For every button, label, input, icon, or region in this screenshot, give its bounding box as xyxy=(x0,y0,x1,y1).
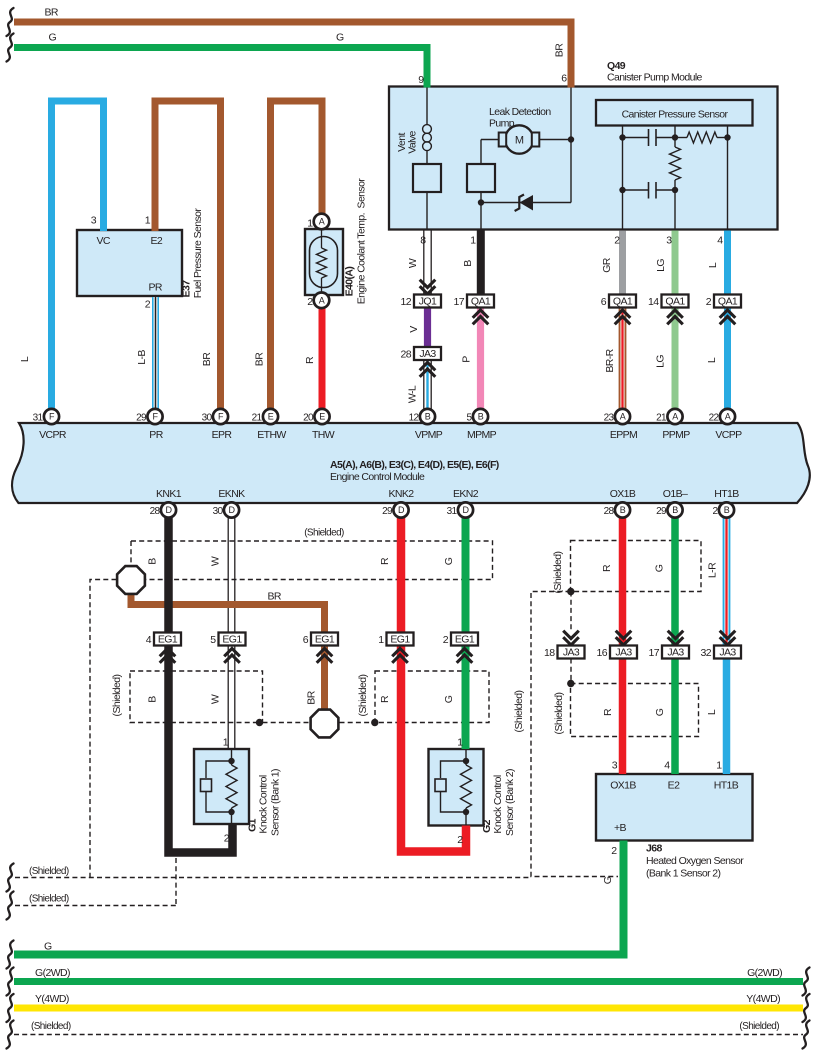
svg-text:(Shielded): (Shielded) xyxy=(739,1021,779,1032)
svg-text:32: 32 xyxy=(701,647,712,659)
svg-text:22: 22 xyxy=(709,413,720,424)
svg-text:BR: BR xyxy=(554,43,566,57)
svg-text:OX1B: OX1B xyxy=(610,780,636,792)
svg-text:Sensor (Bank 2): Sensor (Bank 2) xyxy=(504,769,516,836)
svg-text:12: 12 xyxy=(409,413,420,424)
svg-text:2: 2 xyxy=(706,296,712,308)
svg-text:ETHW: ETHW xyxy=(257,429,286,441)
svg-text:Engine Control Module: Engine Control Module xyxy=(330,471,425,483)
svg-text:28: 28 xyxy=(604,506,615,517)
svg-text:B: B xyxy=(724,505,730,515)
svg-text:W: W xyxy=(407,258,419,268)
svg-text:R: R xyxy=(602,708,614,716)
svg-text:EG1: EG1 xyxy=(222,634,242,646)
svg-text:L-R: L-R xyxy=(707,562,719,578)
svg-text:6: 6 xyxy=(561,73,567,85)
svg-text:4: 4 xyxy=(717,235,723,247)
svg-text:B: B xyxy=(478,412,484,422)
svg-text:L: L xyxy=(707,262,719,268)
svg-text:P: P xyxy=(461,356,473,363)
svg-text:A: A xyxy=(620,412,626,422)
svg-text:G: G xyxy=(44,941,52,953)
svg-text:4: 4 xyxy=(664,760,670,772)
svg-text:20: 20 xyxy=(303,413,314,424)
svg-text:12: 12 xyxy=(401,296,412,308)
svg-text:17: 17 xyxy=(454,296,465,308)
svg-text:28: 28 xyxy=(401,349,412,361)
svg-text:PPMP: PPMP xyxy=(662,429,690,441)
svg-text:Knock Control: Knock Control xyxy=(492,775,504,833)
svg-text:6: 6 xyxy=(601,296,607,308)
svg-text:E37: E37 xyxy=(181,280,193,298)
svg-text:R: R xyxy=(379,557,391,565)
svg-text:E40(A): E40(A) xyxy=(344,267,356,297)
svg-text:18: 18 xyxy=(544,647,555,659)
svg-text:THW: THW xyxy=(312,429,335,441)
svg-text:BR: BR xyxy=(306,690,318,704)
svg-text:BR: BR xyxy=(254,352,266,366)
svg-text:EG1: EG1 xyxy=(455,634,475,646)
svg-text:(Shielded): (Shielded) xyxy=(357,674,369,716)
svg-text:Engine Coolant Temp. Sensor: Engine Coolant Temp. Sensor xyxy=(356,178,368,305)
svg-text:B: B xyxy=(147,696,159,703)
svg-text:2: 2 xyxy=(443,634,449,646)
svg-text:Canister Pump Module: Canister Pump Module xyxy=(607,72,703,84)
svg-text:EKN2: EKN2 xyxy=(453,488,479,500)
svg-text:Fuel Pressure Sensor: Fuel Pressure Sensor xyxy=(192,208,204,299)
svg-text:(Shielded): (Shielded) xyxy=(111,674,123,716)
svg-text:Sensor (Bank 1): Sensor (Bank 1) xyxy=(270,769,282,836)
svg-text:VPMP: VPMP xyxy=(415,429,443,441)
svg-text:21: 21 xyxy=(656,413,667,424)
svg-text:(Shielded): (Shielded) xyxy=(29,894,69,905)
svg-text:14: 14 xyxy=(648,296,659,308)
svg-text:30: 30 xyxy=(213,506,224,517)
svg-text:2: 2 xyxy=(145,299,151,311)
svg-text:JA3: JA3 xyxy=(563,647,580,659)
svg-text:(Shielded): (Shielded) xyxy=(29,866,69,877)
svg-text:B: B xyxy=(425,412,431,422)
svg-text:W: W xyxy=(210,694,222,704)
svg-text:9: 9 xyxy=(418,74,424,86)
svg-text:B: B xyxy=(147,558,159,565)
svg-text:2: 2 xyxy=(224,833,230,845)
svg-text:EG1: EG1 xyxy=(158,634,178,646)
svg-text:3: 3 xyxy=(612,760,618,772)
svg-text:+B: +B xyxy=(614,822,627,834)
svg-text:VC: VC xyxy=(97,235,111,247)
svg-text:G(2WD): G(2WD) xyxy=(747,967,782,979)
svg-text:HT1B: HT1B xyxy=(714,488,739,500)
svg-text:1: 1 xyxy=(223,737,229,749)
svg-text:BR-R: BR-R xyxy=(604,348,616,372)
svg-text:EPPM: EPPM xyxy=(610,429,637,441)
svg-text:W: W xyxy=(210,556,222,566)
svg-text:1: 1 xyxy=(378,634,384,646)
svg-text:E2: E2 xyxy=(668,780,680,792)
svg-text:HT1B: HT1B xyxy=(714,780,739,792)
svg-text:G: G xyxy=(654,708,666,716)
svg-text:W-L: W-L xyxy=(407,385,419,403)
svg-text:17: 17 xyxy=(649,647,660,659)
svg-text:VCPR: VCPR xyxy=(39,429,67,441)
svg-text:JA3: JA3 xyxy=(615,647,632,659)
svg-text:PR: PR xyxy=(149,282,163,294)
svg-text:28: 28 xyxy=(150,506,161,517)
svg-text:2: 2 xyxy=(611,845,617,857)
svg-text:Y(4WD): Y(4WD) xyxy=(35,993,69,1005)
svg-text:GR: GR xyxy=(601,257,613,273)
svg-text:6: 6 xyxy=(303,634,309,646)
svg-text:31: 31 xyxy=(447,506,458,517)
svg-text:G(2WD): G(2WD) xyxy=(35,967,70,979)
svg-text:Y(4WD): Y(4WD) xyxy=(746,993,780,1005)
svg-text:29: 29 xyxy=(382,506,393,517)
svg-text:Q49: Q49 xyxy=(607,60,626,72)
svg-text:29: 29 xyxy=(656,506,667,517)
svg-text:E: E xyxy=(319,412,325,422)
svg-text:Pump: Pump xyxy=(489,117,515,129)
svg-text:BR: BR xyxy=(268,591,282,603)
svg-text:B: B xyxy=(462,260,474,267)
svg-text:J68: J68 xyxy=(646,843,662,855)
svg-text:EKNK: EKNK xyxy=(218,488,245,500)
svg-text:Canister Pressure Sensor: Canister Pressure Sensor xyxy=(622,109,729,121)
svg-text:A: A xyxy=(672,412,678,422)
svg-text:A5(A), A6(B), E3(C), E4(D), E5: A5(A), A6(B), E3(C), E4(D), E5(E), E6(F) xyxy=(330,459,499,471)
svg-text:JA3: JA3 xyxy=(419,348,436,360)
svg-text:2: 2 xyxy=(457,834,463,846)
svg-text:QA1: QA1 xyxy=(613,296,633,308)
svg-text:21: 21 xyxy=(252,413,263,424)
svg-text:A: A xyxy=(725,412,731,422)
svg-text:E: E xyxy=(268,412,274,422)
svg-text:G: G xyxy=(49,32,57,44)
svg-text:M: M xyxy=(515,135,524,147)
svg-text:O1B–: O1B– xyxy=(663,488,688,500)
svg-text:2: 2 xyxy=(307,296,313,308)
svg-text:G: G xyxy=(443,557,455,565)
svg-text:L-B: L-B xyxy=(136,350,148,365)
svg-text:(Bank 1 Sensor 2): (Bank 1 Sensor 2) xyxy=(646,868,721,880)
svg-text:23: 23 xyxy=(604,413,615,424)
svg-text:(Shielded): (Shielded) xyxy=(552,551,564,593)
svg-text:8: 8 xyxy=(420,235,426,247)
svg-text:(Shielded): (Shielded) xyxy=(304,528,344,539)
svg-text:BR: BR xyxy=(45,7,59,19)
svg-text:3: 3 xyxy=(91,215,97,227)
svg-text:EPR: EPR xyxy=(212,429,233,441)
svg-text:VCPP: VCPP xyxy=(715,429,742,441)
svg-text:R: R xyxy=(379,695,391,703)
svg-text:1: 1 xyxy=(470,235,476,247)
svg-text:B: B xyxy=(672,505,678,515)
svg-text:3: 3 xyxy=(666,235,672,247)
svg-text:1: 1 xyxy=(716,760,722,772)
svg-text:R: R xyxy=(304,356,316,364)
svg-text:30: 30 xyxy=(202,413,213,424)
svg-text:Leak Detection: Leak Detection xyxy=(489,106,551,118)
svg-text:JA3: JA3 xyxy=(719,647,736,659)
svg-text:G: G xyxy=(654,564,666,572)
svg-text:EG1: EG1 xyxy=(315,634,335,646)
svg-text:A: A xyxy=(319,217,325,227)
svg-text:G: G xyxy=(336,32,344,44)
svg-text:G: G xyxy=(443,695,455,703)
svg-text:QA1: QA1 xyxy=(665,296,685,308)
svg-text:Knock Control: Knock Control xyxy=(258,775,270,833)
svg-text:Valve: Valve xyxy=(407,131,419,154)
svg-text:L: L xyxy=(706,709,718,715)
svg-text:1: 1 xyxy=(145,215,151,227)
svg-text:JA3: JA3 xyxy=(667,647,684,659)
svg-text:G: G xyxy=(602,876,614,884)
svg-text:E2: E2 xyxy=(151,235,163,247)
svg-text:1: 1 xyxy=(307,218,313,230)
svg-text:OX1B: OX1B xyxy=(610,488,636,500)
svg-text:LG: LG xyxy=(655,259,667,272)
svg-text:LG: LG xyxy=(655,355,667,368)
svg-text:KNK1: KNK1 xyxy=(156,488,182,500)
svg-text:29: 29 xyxy=(136,413,147,424)
svg-text:4: 4 xyxy=(146,634,152,646)
svg-text:2: 2 xyxy=(614,235,620,247)
svg-text:5: 5 xyxy=(210,634,216,646)
svg-text:V: V xyxy=(408,326,420,333)
svg-text:L: L xyxy=(19,356,31,362)
svg-text:R: R xyxy=(601,564,613,572)
svg-text:QA1: QA1 xyxy=(718,296,738,308)
svg-text:(Shielded): (Shielded) xyxy=(553,692,565,734)
svg-text:KNK2: KNK2 xyxy=(388,488,414,500)
svg-text:A: A xyxy=(319,296,325,306)
svg-text:MPMP: MPMP xyxy=(467,429,497,441)
svg-text:(Shielded): (Shielded) xyxy=(513,690,525,732)
svg-text:QA1: QA1 xyxy=(471,296,491,308)
svg-text:Heated Oxygen Sensor: Heated Oxygen Sensor xyxy=(646,855,744,867)
svg-text:L: L xyxy=(706,357,718,363)
svg-text:B: B xyxy=(620,505,626,515)
svg-text:16: 16 xyxy=(597,647,608,659)
svg-text:31: 31 xyxy=(33,413,44,424)
svg-text:EG1: EG1 xyxy=(390,634,410,646)
svg-text:BR: BR xyxy=(201,352,213,366)
svg-text:(Shielded): (Shielded) xyxy=(31,1021,71,1032)
svg-text:PR: PR xyxy=(149,429,163,441)
svg-text:JQ1: JQ1 xyxy=(419,296,437,308)
svg-text:1: 1 xyxy=(457,737,463,749)
